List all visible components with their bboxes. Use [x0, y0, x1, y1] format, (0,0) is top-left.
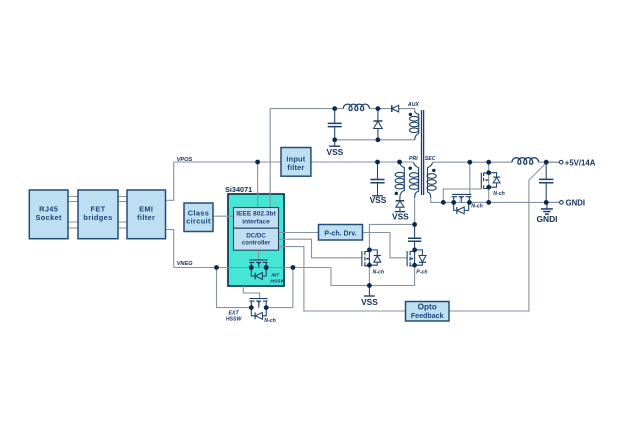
junction sync high source node	[486, 185, 491, 190]
winding PRI A	[395, 162, 404, 200]
wire DC/DC to opto feedback	[279, 247, 406, 311]
transistor EXT HSSW	[249, 299, 267, 308]
wire SEC output rail	[433, 161, 560, 163]
label INT HSSW	[270, 273, 285, 285]
wire clamp node to N-ch drain	[369, 224, 414, 250]
junction sync high source rail	[486, 200, 491, 205]
svg-text:Opto: Opto	[418, 303, 437, 312]
wire EMI filter to VNEG rail	[166, 230, 174, 268]
wire EMI filter to VPOS rail	[166, 162, 174, 200]
svg-text:VNEG: VNEG	[177, 261, 194, 267]
ground VSS PRI diode	[395, 211, 406, 213]
wire DC/DC to P-ch driver	[279, 232, 319, 234]
junction PRI cap	[375, 160, 380, 165]
junction return gate tap	[441, 200, 446, 205]
junction SEC rail sync high drain	[486, 160, 491, 165]
wire VPOS rail Input filter to transformer	[311, 161, 414, 163]
block EMI filter	[127, 190, 166, 239]
wire Class circuit to IEEE interface	[213, 215, 234, 217]
winding SEC	[427, 162, 436, 198]
wire gate cross-couple to low-side N-ch	[469, 162, 471, 194]
block DC/DC controller	[234, 228, 279, 250]
svg-text:INT: INT	[271, 273, 280, 279]
svg-text:AUX: AUX	[407, 102, 419, 108]
svg-text:PRI: PRI	[409, 156, 418, 162]
svg-text:P-ch: P-ch	[416, 269, 427, 275]
junction VPOS to IEEE	[255, 160, 260, 165]
svg-text:VSS: VSS	[370, 195, 387, 205]
transistor sync rect high N-ch	[481, 173, 488, 189]
wire bus FET bridges to EMI filter	[118, 197, 127, 229]
winding PRI B	[409, 162, 418, 197]
junction clamp P-ch drain	[412, 248, 417, 253]
svg-text:N-ch: N-ch	[471, 203, 483, 209]
junction AUX zener top	[376, 106, 381, 111]
svg-text:DC/DC: DC/DC	[246, 232, 266, 239]
svg-text:VSS: VSS	[392, 211, 409, 221]
wire sync rect high drain-source	[488, 162, 490, 202]
ground VSS clamp	[364, 286, 375, 297]
wire VNEG to clamp source node	[331, 265, 415, 285]
junction INT HSSW source	[249, 265, 254, 270]
svg-text:circuit: circuit	[186, 217, 211, 226]
diode AUX clamp zener	[373, 109, 382, 140]
diode body sync rect low	[454, 202, 469, 213]
diode body clamp N-ch	[369, 250, 381, 265]
block P-ch. Drv.	[319, 225, 363, 241]
svg-text:HSSW: HSSW	[270, 278, 285, 284]
junction clamp P-ch source	[412, 263, 417, 268]
diode body clamp P-ch	[415, 250, 426, 265]
svg-text:VSS: VSS	[361, 297, 378, 307]
block Class circuit	[184, 203, 213, 232]
inductor L AUX filter	[343, 104, 369, 110]
phase dot AUX	[409, 113, 412, 116]
transistor INT HSSW	[249, 250, 267, 267]
transistor clamp N-ch	[362, 250, 370, 267]
svg-text:GNDI: GNDI	[566, 199, 586, 208]
svg-text:filter: filter	[137, 213, 155, 222]
wire feedback sense diagonal	[449, 163, 546, 311]
wire PRI winding B to clamp node	[414, 198, 416, 225]
capacitor clamp	[408, 224, 421, 250]
wire EXT HSSW source rail to VNEG	[266, 268, 293, 308]
label EXT HSSW	[226, 311, 243, 323]
junction sync low source	[451, 200, 456, 205]
junction clamp N-ch drain	[367, 248, 372, 253]
wire AUX top rail	[335, 109, 415, 111]
wire DC/DC to clamp N-ch gate	[279, 239, 362, 258]
transistor sync rect low N-ch	[452, 194, 472, 202]
terminal GNDI	[560, 201, 564, 205]
phase dot PRI A	[395, 192, 398, 195]
svg-text:N-ch: N-ch	[493, 191, 505, 197]
wire AUX return rail	[335, 139, 415, 141]
svg-text:N-ch: N-ch	[264, 318, 276, 324]
svg-text:IEEE 802.3bt: IEEE 802.3bt	[236, 211, 276, 218]
ground VSS AUX	[329, 140, 340, 146]
junction EXT HSSW drain	[264, 305, 269, 310]
block Opto Feedback	[406, 302, 450, 322]
junction clamp N-ch source	[367, 263, 372, 268]
wire AUX rail to IEEE interface	[270, 109, 335, 208]
block Input filter	[281, 148, 311, 177]
junction sync low drain	[467, 200, 472, 205]
wire GNDI node to terminal	[546, 201, 559, 203]
svg-text:P-ch. Drv.: P-ch. Drv.	[324, 231, 356, 238]
wire +5V output node to terminal	[546, 161, 559, 163]
transistor clamp P-ch	[407, 250, 415, 267]
block FET bridges	[78, 190, 118, 239]
junction sync high drain node	[486, 170, 491, 175]
capacitor output	[539, 162, 553, 202]
wire VNEG to EXT HSSW source rail	[217, 268, 252, 308]
svg-text:bridges: bridges	[83, 213, 112, 222]
junction output cap bottom	[544, 200, 549, 205]
transformer core	[422, 110, 424, 195]
svg-text:interface: interface	[242, 218, 270, 225]
junction SEC rail gate tap	[467, 160, 472, 165]
junction AUX cap top	[332, 106, 337, 111]
svg-text:HSSW: HSSW	[226, 317, 243, 323]
svg-text:VPOS: VPOS	[177, 157, 193, 163]
wire gate cross-couple to high-side N-ch	[443, 189, 481, 202]
svg-text:EXT: EXT	[229, 311, 240, 317]
svg-text:N-ch: N-ch	[373, 269, 385, 275]
IC U1 Si34071 body	[228, 194, 284, 286]
junction PRI winding A top	[397, 160, 402, 165]
junction VNEG right	[291, 265, 296, 270]
junction AUX cap bottom	[332, 137, 337, 142]
ground VSS PRI cap	[372, 195, 383, 197]
phase dot SEC	[432, 169, 435, 172]
svg-text:Socket: Socket	[36, 213, 63, 222]
junction EXT HSSW source	[249, 305, 254, 310]
svg-text:+5V/14A: +5V/14A	[565, 158, 596, 167]
inductor L output	[512, 158, 539, 164]
winding AUX	[410, 111, 419, 140]
wire clamp N-ch source to VSS node	[368, 265, 370, 285]
capacitor PRI input	[370, 162, 384, 196]
junction AUX zener bottom	[376, 137, 381, 142]
svg-text:VSS: VSS	[327, 147, 344, 157]
junction VNEG left	[214, 265, 219, 270]
block RJ45 Socket	[29, 190, 68, 239]
svg-text:controller: controller	[242, 240, 271, 247]
terminal +5V/14A	[559, 160, 563, 164]
junction output node	[544, 160, 549, 165]
wire bus RJ45 to FET bridges	[68, 197, 78, 229]
block IEEE 802.3bt interface	[234, 208, 279, 229]
diode AUX rectifier	[392, 105, 399, 112]
diode body EXT HSSW	[251, 308, 266, 320]
ground GNDI	[541, 202, 553, 214]
capacitor AUX input	[328, 109, 342, 140]
svg-text:SEC: SEC	[425, 156, 436, 162]
phase dot PRI B	[409, 167, 412, 170]
svg-text:Si34071: Si34071	[225, 185, 252, 194]
wire VPOS rail	[174, 161, 281, 163]
diode body sync rect high	[489, 173, 500, 188]
wire P-ch driver to clamp P-ch gate	[363, 233, 408, 258]
diode PRI A to VSS	[396, 201, 405, 211]
svg-text:Feedback: Feedback	[411, 312, 444, 320]
junction INT HSSW drain	[264, 265, 269, 270]
wire DC/DC to EXT HSSW gate	[243, 286, 259, 299]
junction clamp VSS node	[367, 283, 372, 288]
svg-text:GNDI: GNDI	[537, 214, 558, 224]
wire VNEG rail	[174, 267, 331, 269]
wire VPOS junction to IEEE interface	[257, 162, 259, 208]
wire SEC return rail	[431, 198, 560, 203]
diode body INT HSSW	[251, 268, 266, 280]
svg-text:filter: filter	[287, 163, 304, 172]
junction clamp top node	[412, 222, 417, 227]
